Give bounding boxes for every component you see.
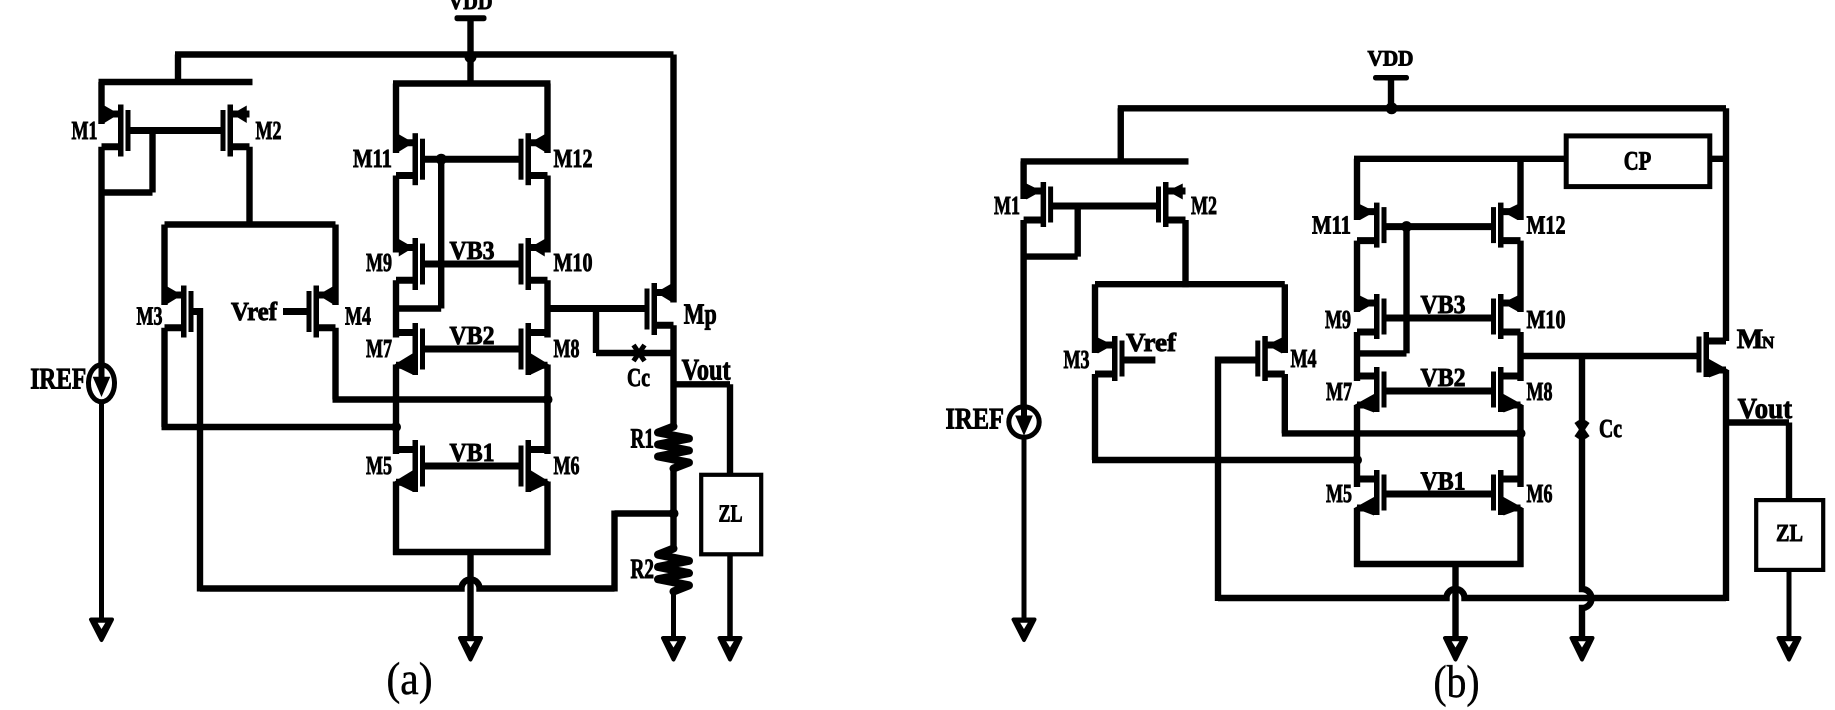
current source IREF (b) <box>1009 407 1039 437</box>
wire VDD top rail (a) <box>175 51 674 57</box>
wire amplifier output to MN gate (b) <box>1521 353 1700 359</box>
transistor M5 (a) <box>393 440 425 492</box>
wire M4 source (a) <box>332 225 338 306</box>
ground arrow IREF (a) <box>91 620 112 641</box>
capacitor Cc mark (b) <box>1577 422 1588 438</box>
wire M11 source (b) <box>1354 159 1360 220</box>
transistor M3 (a) <box>165 286 194 338</box>
transistor Mp (a) <box>645 283 674 335</box>
transistor M8 (b) <box>1491 367 1523 413</box>
junction dot VDD rail (a) <box>465 51 477 63</box>
wire M3 drain to M5/M7 node (b) <box>1092 457 1357 463</box>
wire R2 to ground (a) <box>671 592 676 639</box>
svg-text:Vref: Vref <box>1126 328 1176 357</box>
wire M8 source to M6 drain (b) <box>1517 405 1523 487</box>
wire M5-M6 gate wire VB1 (b) <box>1384 491 1493 498</box>
wire ground stem (b) <box>1452 564 1458 638</box>
wire M3/M4 source rail (a) <box>165 221 336 227</box>
current source IREF (a) <box>89 365 115 402</box>
wire M3 source (a) <box>161 225 167 306</box>
ground arrow R2 (a) <box>663 638 684 660</box>
wire M11 drain to M9 source (a) <box>393 176 399 253</box>
transistor M7 (a) <box>393 323 425 375</box>
transistor M12 (a) <box>519 133 548 185</box>
svg-text:VB1: VB1 <box>450 438 495 467</box>
svg-text:M5: M5 <box>1326 479 1352 508</box>
wire cascode box top rail to CP (b) <box>1354 156 1566 162</box>
wire M3/M4 source rail (b) <box>1095 281 1285 287</box>
transistor M3 (b) <box>1095 336 1125 381</box>
svg-text:M2: M2 <box>256 116 282 145</box>
wire VDD top rail (b) <box>1118 105 1726 111</box>
svg-text:IREF: IREF <box>946 403 1005 436</box>
resistor R2 (a) <box>658 549 689 592</box>
wire Cc vertical with hop (b) <box>1582 356 1592 638</box>
capacitor Cc mark (a) <box>634 345 645 361</box>
wire M12 drain to M10 source (b) <box>1517 241 1523 312</box>
transistor M6 (b) <box>1491 470 1523 516</box>
wire M3 gate lead Vref (b) <box>1123 357 1155 364</box>
wire M7 source to M5 drain (b) <box>1354 405 1360 487</box>
wire feedback to M3 gate with hop (a) <box>200 580 615 589</box>
transistor M7 (b) <box>1354 367 1386 413</box>
wire M1 drain to IREF (b) <box>1020 220 1026 405</box>
svg-text:M4: M4 <box>345 302 371 331</box>
wire Vref lead to M4 gate (a) <box>283 308 308 315</box>
junction dot M4 drain at M6/M8 node (b) <box>1516 428 1526 438</box>
svg-text:M6: M6 <box>1527 479 1553 508</box>
wire M3 drain to M5/M7 node (a) <box>162 424 397 430</box>
wire feedback tap horizontal (a) <box>615 510 674 516</box>
wire R1 to R2 (a) <box>670 469 676 549</box>
wire Mp source from VDD rail (a) <box>670 55 676 303</box>
wire M1-M2 gate wire (a) <box>130 127 221 134</box>
svg-text:M11: M11 <box>353 144 392 173</box>
transistor M4 (b) <box>1255 336 1285 381</box>
transistor M9 (a) <box>396 238 425 290</box>
wire M10 drain to M8 source (a) <box>544 280 550 337</box>
wire M8 source to M6 drain (a) <box>544 365 550 455</box>
svg-text:IREF: IREF <box>30 362 86 395</box>
load box ZL (a) <box>701 475 761 555</box>
wire M4 source (b) <box>1282 284 1288 353</box>
wire M11 drain to M9 source (b) <box>1354 241 1360 312</box>
svg-text:VB3: VB3 <box>1421 290 1466 319</box>
wire M5-M6 gate wire VB1 (a) <box>425 463 520 470</box>
wire IREF to ground (b) <box>1022 440 1027 621</box>
wire M6 source to ground rail (a) <box>544 482 550 556</box>
wire VDD rail drop to M1/M2 rail (b) <box>1118 108 1124 164</box>
transistor M1 (a) <box>102 105 131 157</box>
svg-text:Mp: Mp <box>684 299 717 331</box>
transistor M4 (a) <box>307 286 336 338</box>
wire ZL top stem (b) <box>1786 423 1792 503</box>
svg-text:VDD: VDD <box>449 0 493 14</box>
junction dot M3 drain at M5/M7 node (a) <box>391 422 401 432</box>
svg-text:M6: M6 <box>554 451 580 480</box>
svg-text:VB1: VB1 <box>1421 467 1466 496</box>
wire ZL bottom stem (b) <box>1787 568 1792 638</box>
svg-text:N: N <box>1762 333 1775 352</box>
svg-text:M7: M7 <box>366 334 392 363</box>
wire amplifier output to Mp gate (a) <box>548 305 649 312</box>
svg-text:M1: M1 <box>994 191 1020 220</box>
wire Vout feedback to M4 gate with hop (b) <box>1218 589 1726 598</box>
svg-text:M10: M10 <box>1527 305 1566 334</box>
wire IREF to ground (a) <box>99 404 104 620</box>
wire M12 source (b) <box>1517 159 1523 220</box>
transistor M8 (a) <box>519 323 551 375</box>
wire ZL bottom stem (a) <box>727 553 733 639</box>
ground arrow ZL (b) <box>1779 638 1800 660</box>
wire ground rail (b) <box>1354 561 1524 567</box>
wire M3 drain (b) <box>1092 374 1098 460</box>
wire M4 drain to M6/M8 node (a) <box>333 396 548 402</box>
wire CP right lead (b) <box>1710 156 1726 162</box>
svg-text:M8: M8 <box>554 334 580 363</box>
svg-text:(a): (a) <box>387 653 433 704</box>
svg-text:VB2: VB2 <box>1421 363 1466 392</box>
svg-text:Vref: Vref <box>231 297 277 326</box>
wire gate bias jog to left rail (a) <box>393 305 441 311</box>
svg-text:M2: M2 <box>1191 191 1217 220</box>
svg-text:M4: M4 <box>1291 344 1317 373</box>
wire M7-M8 gate wire VB2 (a) <box>425 346 520 353</box>
transistor M12 (b) <box>1491 203 1521 248</box>
transistor M10 (a) <box>519 238 548 290</box>
svg-text:M11: M11 <box>1312 211 1351 240</box>
svg-text:M7: M7 <box>1326 377 1352 406</box>
svg-text:(b): (b) <box>1434 656 1480 707</box>
wire gate bias jog to left rail (b) <box>1354 350 1407 356</box>
wire M1/M2 source rail (a) <box>99 79 253 85</box>
wire M3 gate lead (a) <box>194 308 201 315</box>
wire Vout to ZL (a) <box>671 381 731 387</box>
transistor M2 (b) <box>1156 182 1186 227</box>
transistor M5 (b) <box>1354 470 1386 516</box>
svg-text:M12: M12 <box>554 144 593 173</box>
wire M9-M10 gate wire VB3 (b) <box>1384 315 1493 322</box>
wire VDD to MN drain (b) <box>1723 108 1729 341</box>
wire M9-M10 gate wire VB3 (a) <box>425 261 520 268</box>
wire M1 diode connection horizontal (a) <box>99 189 153 195</box>
resistor R1 (a) <box>658 427 689 469</box>
wire Vout branch (b) <box>1723 419 1789 425</box>
wire M11-M12 gate wire (b) <box>1384 223 1493 230</box>
transistor M1 (b) <box>1024 182 1054 227</box>
ground arrow ZL (a) <box>720 638 741 660</box>
transistor M2 (a) <box>221 105 250 157</box>
junction dot VDD rail (b) <box>1386 102 1398 114</box>
wire M2 drain to diff-pair rail (b) <box>1182 220 1188 287</box>
wire M4 drain to M6/M8 node (b) <box>1282 430 1521 436</box>
transistor M10 (b) <box>1491 294 1521 339</box>
svg-text:Cc: Cc <box>1599 414 1622 443</box>
svg-text:M9: M9 <box>366 248 392 277</box>
transistor MN (b) <box>1697 332 1729 378</box>
wire M10 drain to M8 source (b) <box>1517 332 1523 381</box>
svg-text:ZL: ZL <box>1776 520 1803 547</box>
wire M2 drain to diff-pair rail (a) <box>246 147 252 228</box>
wire Mp drain to Vout (a) <box>670 325 676 428</box>
wire Cc vertical from Mp gate (a) <box>593 305 599 353</box>
wire M1 diode connection horizontal (b) <box>1021 253 1078 259</box>
svg-text:M12: M12 <box>1527 211 1566 240</box>
wire gate bias drop (b) <box>1403 227 1409 354</box>
wire M11-M12 gate wire (a) <box>425 156 520 163</box>
svg-text:M3: M3 <box>1064 345 1090 374</box>
transistor M11 (a) <box>396 133 425 185</box>
svg-text:M3: M3 <box>137 302 163 331</box>
junction dot M11/M12 gate (b) <box>1401 221 1412 232</box>
load box ZL (b) <box>1756 500 1823 570</box>
power VDD bar symbol (b) <box>1373 75 1409 81</box>
wire M7 source to M5 drain (a) <box>393 365 399 455</box>
wire M3 gate feedback drop (a) <box>197 308 203 592</box>
wire M1/M2 source rail (b) <box>1021 158 1189 164</box>
svg-text:VDD: VDD <box>1368 46 1414 71</box>
wire M1 source (b) <box>1020 161 1026 199</box>
svg-text:R1: R1 <box>631 424 655 455</box>
transistor M9 (b) <box>1357 294 1387 339</box>
svg-text:M8: M8 <box>1527 377 1553 406</box>
svg-text:M1: M1 <box>72 116 98 145</box>
wire M1 drain to IREF (a) <box>98 147 104 364</box>
wire M1 diode connection vertical (b) <box>1074 206 1080 257</box>
ground arrow IREF (b) <box>1014 620 1035 641</box>
svg-text:CP: CP <box>1624 145 1652 175</box>
wire M9 drain to M7 source (a) <box>393 280 399 337</box>
wire M5 source to ground rail (a) <box>393 482 399 556</box>
wire M4 gate lead (b) <box>1218 357 1257 364</box>
wire ground stem (a) <box>467 552 473 638</box>
wire ZL top stem (a) <box>727 384 733 474</box>
wire MN source to Vout (b) <box>1723 370 1729 601</box>
wire VDD stem (b) <box>1388 80 1394 108</box>
svg-text:M10: M10 <box>554 248 593 277</box>
transistor M6 (a) <box>519 440 551 492</box>
junction dot M4 drain at M6/M8 node (a) <box>543 395 553 405</box>
wire Cc horizontal to Vout (a) <box>596 350 674 356</box>
svg-text:ZL: ZL <box>719 500 743 527</box>
svg-text:VB3: VB3 <box>450 236 495 265</box>
wire M1 diode connection vertical (a) <box>149 131 155 193</box>
wire M12 drain to M10 source (a) <box>544 176 550 253</box>
ground arrow center (a) <box>460 638 481 660</box>
wire VDD stem (a) <box>467 21 473 84</box>
svg-text:R2: R2 <box>631 554 655 585</box>
wire M7-M8 gate wire VB2 (b) <box>1384 388 1493 395</box>
wire M1-M2 gate wire (b) <box>1051 203 1161 210</box>
wire feedback vertical (a) <box>611 511 617 592</box>
svg-text:M9: M9 <box>1325 305 1351 334</box>
wire M5 source to ground rail (b) <box>1354 508 1360 567</box>
power VDD bar symbol (a) <box>455 15 487 21</box>
transistor M11 (b) <box>1357 203 1387 248</box>
wire cascode box top rail (a) <box>393 80 551 86</box>
wire M11 source (a) <box>393 84 399 154</box>
ground arrow Cc (b) <box>1572 638 1593 660</box>
junction dot M11/M12 gate (a) <box>436 154 447 165</box>
wire M1 source (a) <box>98 82 104 124</box>
wire M4 drain (b) <box>1282 374 1288 433</box>
wire M4 drain (a) <box>332 328 338 400</box>
svg-text:VB2: VB2 <box>450 321 495 350</box>
svg-text:M5: M5 <box>366 451 392 480</box>
block CP (b) <box>1566 136 1710 187</box>
label MN (b) <box>1737 324 1775 355</box>
wire VDD rail drop to M1/M2 rail (a) <box>175 55 181 86</box>
wire M4 gate feedback drop (b) <box>1215 357 1221 602</box>
wire M12 source (a) <box>544 84 550 154</box>
svg-text:Cc: Cc <box>627 363 650 392</box>
ground arrow center (b) <box>1445 638 1466 660</box>
junction dot feedback tap (a) <box>669 509 679 519</box>
junction dot M3 drain at M5/M7 node (b) <box>1352 455 1362 465</box>
wire M3 drain (a) <box>161 328 167 427</box>
wire gate bias drop to M9 drain node (a) <box>438 159 444 308</box>
wire M3 source (b) <box>1092 284 1098 353</box>
wire ground rail (a) <box>393 549 551 555</box>
svg-text:M: M <box>1737 324 1763 355</box>
wire M9 drain to M7 source (b) <box>1354 332 1360 381</box>
wire M6 source to ground rail (b) <box>1517 508 1523 567</box>
